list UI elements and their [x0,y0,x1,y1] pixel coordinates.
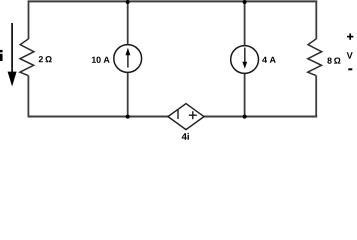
current source I1 10 A circle [114,45,142,73]
wire 10A branch bottom [127,72,129,116]
wire right branch bottom stub [315,76,317,117]
label 8 ohm [327,58,340,64]
wire 10A branch top [127,2,129,45]
label 4 A [262,57,276,63]
junction dot bottom at 10A branch [126,115,130,119]
minus polarity bar inside diamond [177,110,179,119]
wire right branch top stub [315,1,317,39]
label i (bold, clipped at left edge) [0,50,3,61]
wire 4A branch top [244,2,246,46]
junction dot top at 4A branch [243,0,247,4]
wire 4A branch bottom [244,73,246,116]
label 10 A [92,57,110,63]
label plus (V polarity) [347,33,353,39]
wire left branch bottom stub [27,76,29,117]
current source I1 arrow pointing up [126,48,131,68]
label 2 ohm [39,56,52,62]
wire left branch top stub [28,1,30,39]
current annotation arrow i pointing down [11,23,13,74]
label 4i [182,133,189,140]
resistor R2 8 ohm zigzag [308,39,322,76]
plus polarity sign inside diamond [189,111,197,119]
dependent voltage source U1 diamond 4i [168,104,204,130]
resistor R1 2 ohm zigzag [20,39,34,76]
junction dot bottom at 4A branch [243,115,247,119]
current source I2 4 A circle [231,46,259,74]
label minus (V polarity) [348,68,352,70]
wire bottom rail right of diamond [204,116,318,118]
current source I2 arrow pointing down [242,48,247,69]
wire top rail [28,0,318,2]
wire bottom rail left of diamond [28,116,169,118]
label V [347,52,353,58]
junction dot top at 10A branch [126,0,130,4]
